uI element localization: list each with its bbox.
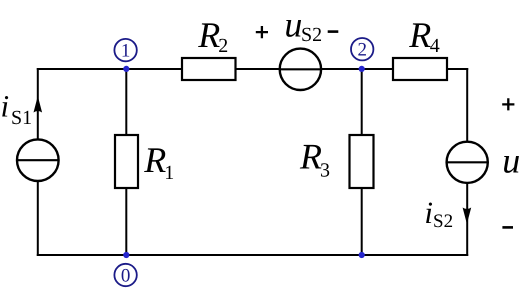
label uS2 bbox=[284, 5, 322, 47]
svg-text:0: 0 bbox=[121, 265, 131, 286]
svg-text:u: u bbox=[284, 5, 302, 45]
voltage source US2 bbox=[280, 49, 321, 90]
label R2 bbox=[197, 15, 228, 57]
label iS1 bbox=[1, 89, 33, 129]
label iS2 bbox=[424, 195, 453, 232]
svg-text:3: 3 bbox=[320, 159, 330, 181]
junction dot node 2 bbox=[359, 66, 365, 72]
node 0 label bbox=[114, 264, 136, 287]
svg-text:i: i bbox=[1, 89, 10, 124]
svg-text:i: i bbox=[424, 195, 433, 230]
svg-text:2: 2 bbox=[357, 40, 367, 61]
wire right branch vertical bbox=[466, 68, 468, 256]
junction dot node 0 right bbox=[359, 252, 365, 258]
resistor R3 bbox=[350, 135, 374, 188]
svg-text:R: R bbox=[408, 15, 431, 55]
svg-text:S2: S2 bbox=[301, 24, 322, 46]
node 2 label bbox=[351, 38, 373, 61]
svg-text:R: R bbox=[299, 137, 322, 177]
svg-text:1: 1 bbox=[164, 162, 174, 184]
resistor R1 bbox=[115, 135, 138, 188]
svg-text:R: R bbox=[197, 15, 220, 55]
current source IS2 bbox=[447, 142, 488, 183]
wire middle branch through R1 bbox=[125, 69, 127, 255]
label R1 bbox=[143, 140, 174, 184]
svg-text:S2: S2 bbox=[433, 211, 453, 232]
label plus of uS2 bbox=[256, 26, 268, 38]
resistor R4 bbox=[393, 58, 447, 80]
svg-text:R: R bbox=[143, 140, 166, 180]
label minus of uS2 bbox=[328, 30, 339, 33]
junction dot node 0 left bbox=[123, 252, 129, 258]
wire bottom rail node0 bbox=[37, 254, 468, 256]
wire left branch vertical bbox=[37, 68, 39, 256]
junction dot node 1 bbox=[123, 66, 129, 72]
current source IS1 bbox=[17, 139, 59, 181]
label R3 bbox=[299, 137, 330, 182]
svg-text:S1: S1 bbox=[11, 107, 32, 129]
resistor R2 bbox=[182, 58, 236, 80]
svg-text:1: 1 bbox=[121, 40, 131, 61]
svg-text:2: 2 bbox=[218, 35, 228, 57]
arrow current direction iS2 down bbox=[463, 208, 472, 225]
svg-text:u: u bbox=[502, 141, 520, 181]
wire middle branch through R3 bbox=[361, 69, 363, 255]
svg-text:4: 4 bbox=[430, 35, 440, 57]
label plus of u bbox=[502, 98, 514, 110]
label R4 bbox=[408, 15, 440, 57]
node 1 label bbox=[114, 39, 136, 62]
label minus of u bbox=[502, 226, 513, 229]
arrow current direction iS1 up bbox=[34, 96, 43, 113]
wire top rail node1 to right corner bbox=[37, 68, 468, 70]
